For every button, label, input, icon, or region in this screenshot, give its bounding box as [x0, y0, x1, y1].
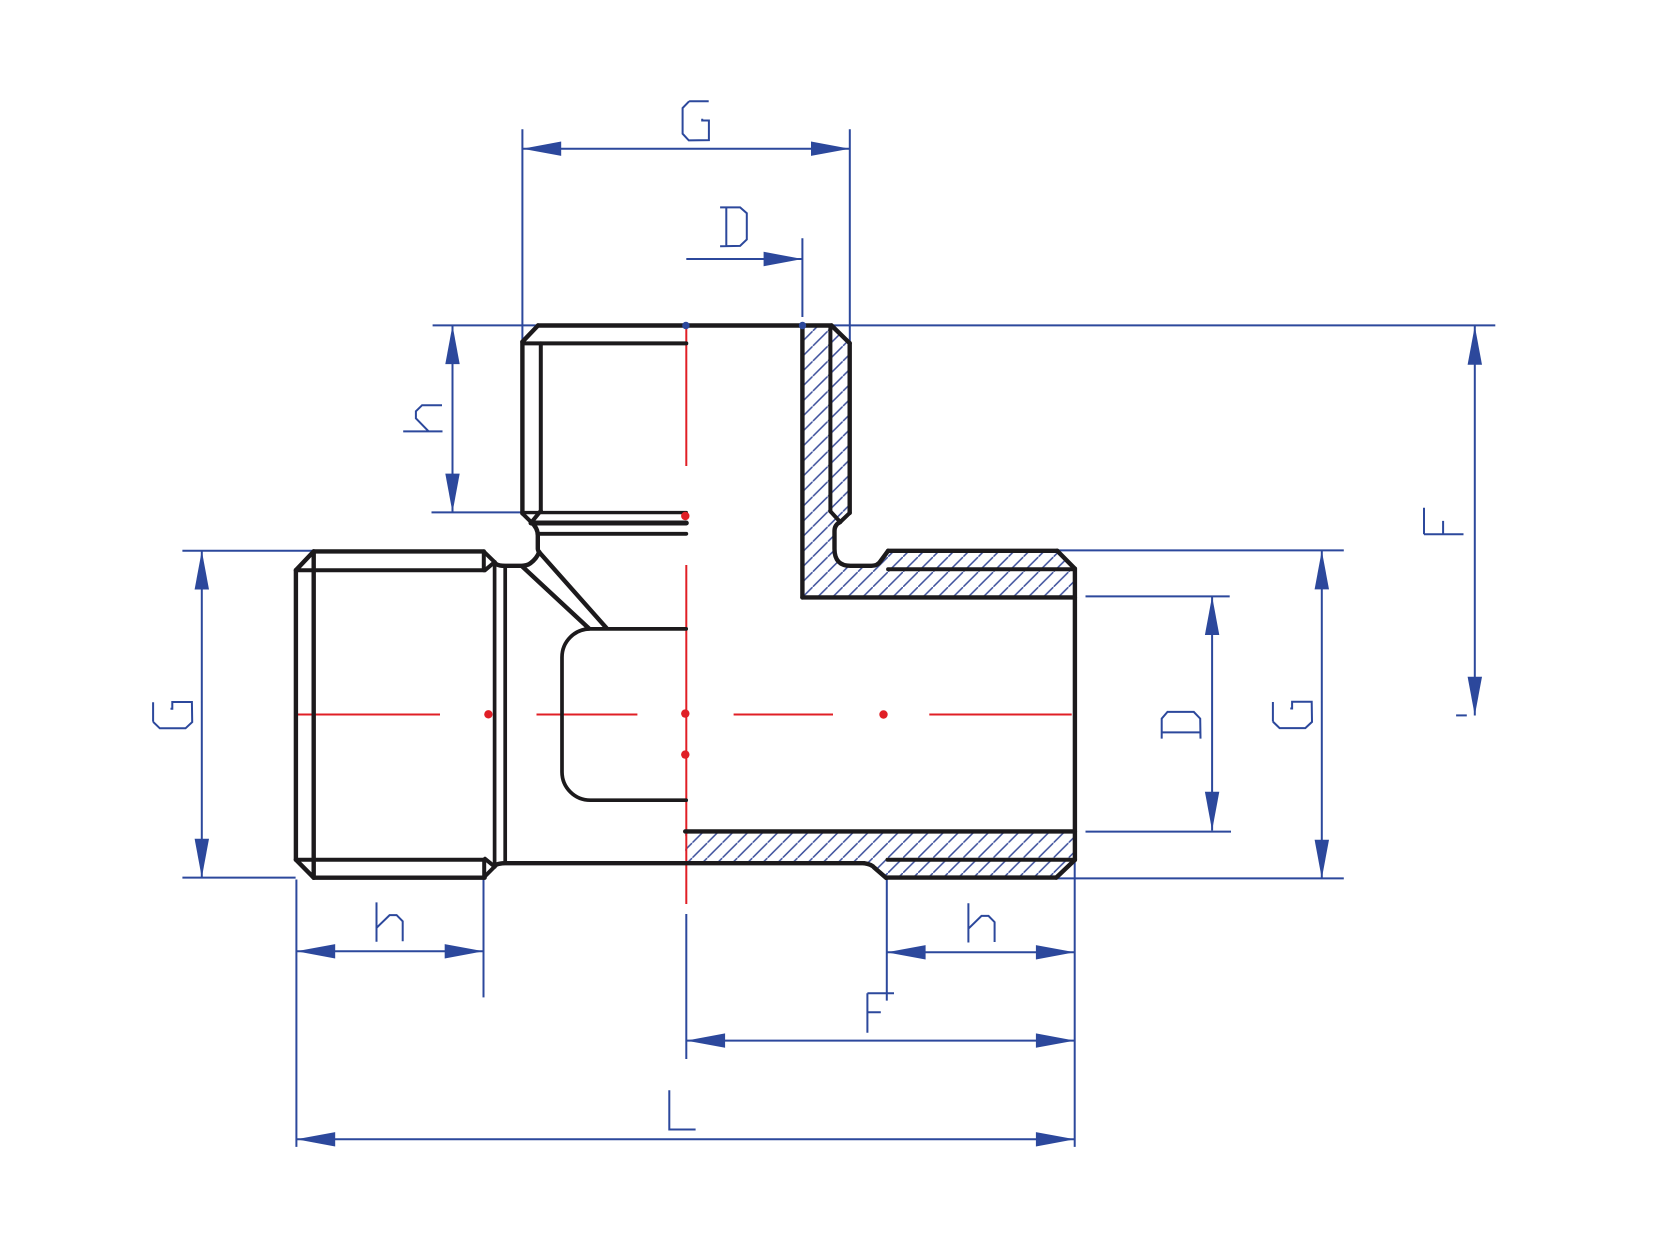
branch right thread runout notch	[830, 511, 849, 522]
branch right root line in section	[828, 326, 832, 511]
branch neck shoulder line	[531, 521, 686, 526]
center dot red below center	[681, 750, 689, 758]
dimension D right: extension line bottom	[1086, 831, 1232, 833]
arrowhead G left lower	[195, 839, 209, 878]
arrowhead h left-bottom right	[445, 944, 484, 958]
dimension G top: extension line right	[849, 129, 851, 367]
centerline horizontal segment right port	[929, 714, 1071, 716]
dimension F bottom: extension line left	[685, 914, 687, 1059]
left port bottom-left chamfer	[296, 860, 314, 878]
arrowhead D right upper	[1205, 596, 1219, 635]
branch top-right chamfer	[832, 326, 850, 344]
left port bottom crest line	[314, 876, 485, 880]
left port bottom root line	[296, 858, 484, 862]
label L bottom	[669, 1090, 695, 1129]
label h left bottom	[377, 902, 403, 941]
right port top root line	[888, 567, 1074, 571]
right port bottom root line	[888, 858, 1075, 862]
arrowhead D right lower	[1205, 792, 1219, 831]
left port crest end edge bottom	[482, 860, 486, 878]
body chamfer cone lower edge	[522, 567, 589, 629]
centerline vertical segment body lower	[685, 757, 687, 905]
branch neck fillet right profile	[531, 522, 539, 552]
arrowhead G top right	[811, 142, 850, 156]
label G right	[1273, 702, 1312, 728]
left port thread runout notch bottom	[484, 859, 495, 878]
branch right crest line	[848, 343, 852, 513]
right port end face	[1073, 569, 1077, 860]
right port top-right chamfer	[1057, 551, 1075, 569]
dimension G left: extension line bottom	[182, 877, 295, 879]
label F right	[1424, 508, 1464, 535]
arrowhead G top left	[522, 142, 561, 156]
branch left thread runout notch	[522, 511, 540, 523]
dimension h top-left: dimension line	[452, 325, 454, 512]
dimension h left bottom: dimension line	[296, 950, 483, 952]
right port bottom-right chamfer	[1056, 860, 1075, 878]
branch top-left chamfer	[522, 326, 538, 342]
arrowhead h top-left lower	[445, 474, 459, 513]
center dot red branch neck	[681, 512, 689, 520]
hatch section: right-port lower wall	[685, 831, 1075, 877]
left port chamfer circle edge	[312, 551, 316, 877]
dimension h left bottom: extension line right	[483, 880, 485, 998]
centerline horizontal segment body left	[537, 714, 638, 716]
arrowhead h right-bottom left	[887, 945, 926, 959]
centerline vertical segment body mid	[685, 716, 687, 753]
arrowhead F bottom left	[686, 1033, 725, 1047]
label h right bottom	[968, 903, 994, 942]
arrowhead F right lower	[1468, 677, 1482, 716]
arrowhead D top	[764, 252, 803, 266]
arrowhead G right upper	[1315, 551, 1329, 590]
arrowhead G right lower	[1315, 840, 1329, 879]
dimension h right bottom: dimension line	[887, 951, 1075, 953]
body bottom surface line	[495, 863, 864, 866]
dimension G top: dimension line	[522, 148, 849, 150]
label D top	[720, 207, 747, 246]
vertex dot blue right	[799, 322, 806, 329]
body chamfer cone upper edge	[539, 552, 606, 628]
label G top	[683, 101, 709, 140]
hatch section: branch right wall and right-port upper wall	[802, 326, 1075, 598]
right port top crest line	[888, 549, 1057, 553]
branch neck fillet left profile	[495, 552, 540, 566]
dimension G right: extension line top	[1057, 549, 1344, 551]
thread end line under branch	[522, 511, 686, 514]
left port crest end edge top	[482, 551, 486, 570]
dimension L bottom: dimension line	[296, 1138, 1074, 1140]
vertex dot blue left	[682, 322, 689, 329]
arrowhead L right	[1036, 1132, 1075, 1146]
right port bore floor	[685, 829, 1075, 833]
centerline horizontal segment left port	[294, 714, 440, 716]
arrowhead h left-bottom left	[296, 944, 335, 958]
datum extension line across branch top	[433, 324, 1496, 326]
dimension G left: extension line top	[182, 550, 314, 552]
centerline vertical segment branch	[685, 326, 687, 467]
left port top crest line	[314, 549, 484, 553]
arrowhead h right-bottom right	[1036, 945, 1075, 959]
dimension D top: extension line	[801, 238, 803, 317]
arrowhead G left upper	[195, 551, 209, 590]
dimension G top: extension line left	[521, 129, 523, 367]
arrowhead L left	[296, 1132, 335, 1146]
label G left	[153, 702, 192, 728]
dimension h right bottom: extension line right	[1074, 862, 1076, 1147]
branch neck lower line	[538, 532, 687, 536]
body cavity outline	[562, 629, 686, 800]
center dot red right port	[879, 710, 887, 718]
left port top root line	[296, 568, 484, 572]
arrowhead F bottom right	[1036, 1033, 1075, 1047]
dimension h left bottom: extension line left	[295, 880, 297, 1147]
arrowhead F right upper	[1468, 326, 1482, 365]
left port thread runout notch top	[484, 552, 495, 571]
branch bore wall in section	[800, 326, 804, 598]
label h top-left	[403, 405, 442, 431]
right port bore ceiling	[802, 595, 1075, 599]
branch left crest line	[520, 342, 524, 514]
arrowhead h top-left upper	[445, 325, 459, 364]
center dot red center	[681, 709, 689, 717]
dimension F right: dimension line	[1474, 326, 1476, 716]
dimension G right: dimension line	[1321, 551, 1323, 879]
dimension D right: dimension line	[1211, 596, 1213, 830]
dimension h right bottom: extension line left	[886, 880, 888, 1001]
label F bottom	[867, 993, 894, 1032]
body face line outer	[493, 562, 497, 867]
branch left root line	[539, 343, 543, 510]
left port end face	[294, 570, 298, 860]
body face line inner	[503, 566, 507, 863]
dimension D right: extension line top	[1086, 595, 1230, 597]
branch top edge	[538, 323, 832, 327]
dimension G left: dimension line	[201, 551, 203, 878]
neck profile between branch and right port	[835, 522, 889, 566]
center dot red left port	[484, 710, 492, 718]
branch root shoulder line	[523, 341, 686, 345]
dimension G right: extension line bottom	[1056, 877, 1344, 879]
right port bottom crest line	[886, 875, 1056, 879]
left port top-left chamfer	[296, 551, 314, 570]
centerline vertical segment body upper	[685, 565, 687, 712]
centerline horizontal segment body right	[734, 714, 833, 716]
dimension D top: dimension line	[686, 258, 802, 260]
dimension F bottom: dimension line	[686, 1040, 1074, 1042]
dimension F right: centreline tick	[1456, 714, 1467, 716]
neck groove into right port bottom	[864, 863, 886, 878]
dimension h top-left: lower extension line	[432, 511, 528, 513]
label D right	[1162, 712, 1201, 739]
